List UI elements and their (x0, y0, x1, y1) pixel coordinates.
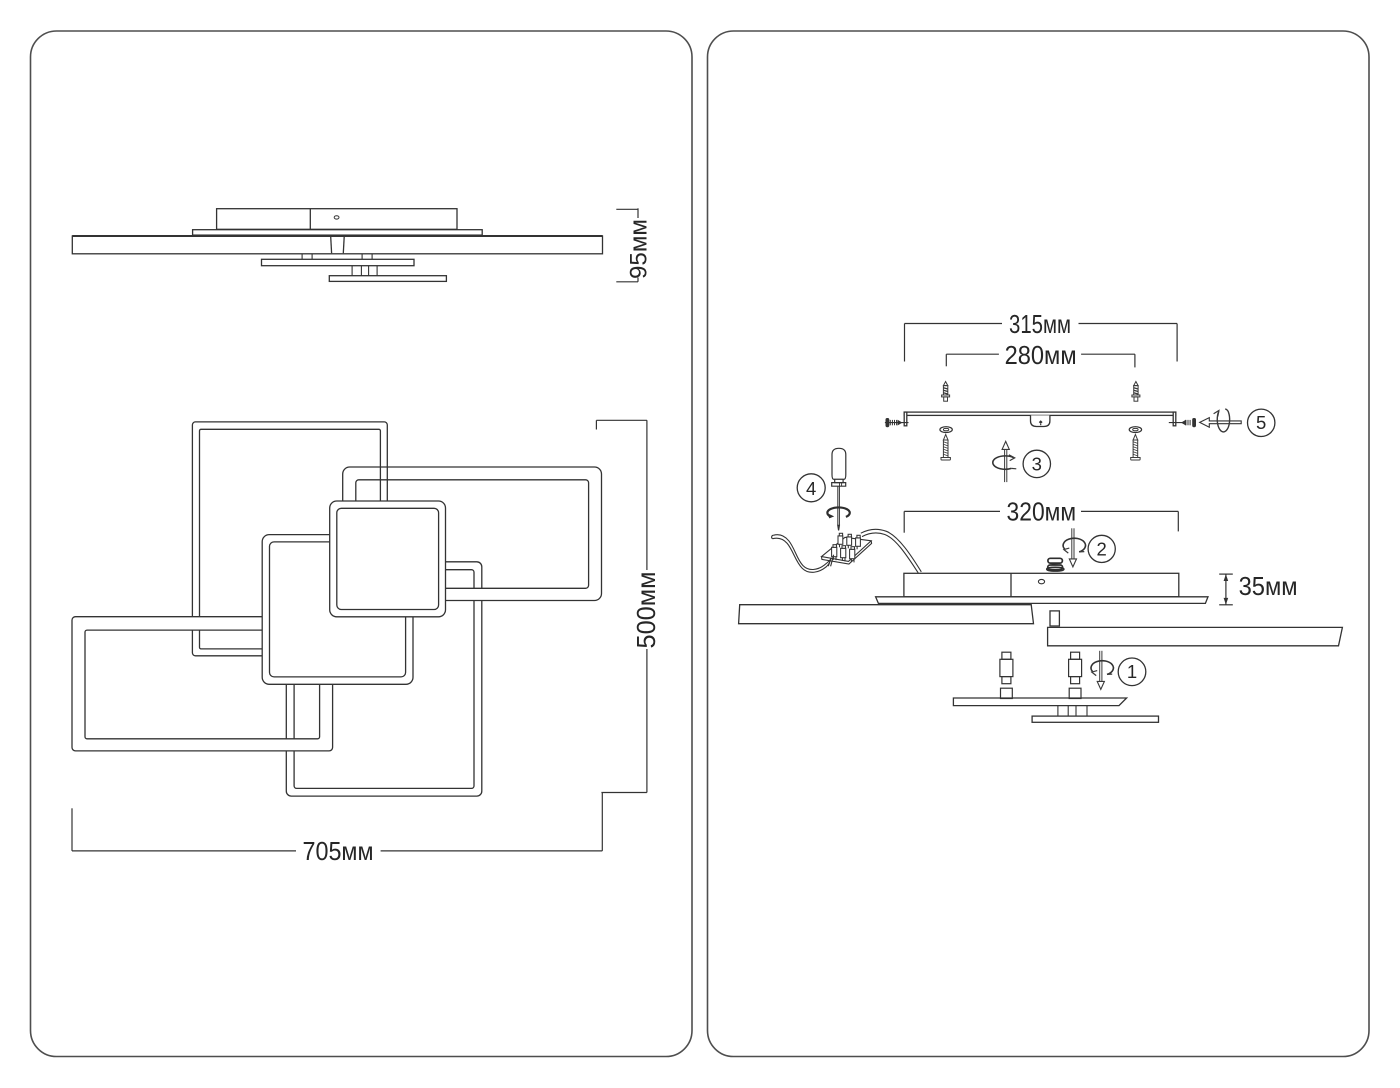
svg-text:1: 1 (1127, 661, 1137, 682)
svg-text:95мм: 95мм (626, 219, 653, 279)
svg-text:4: 4 (806, 478, 816, 499)
svg-text:705мм: 705мм (303, 836, 374, 866)
svg-text:500мм: 500мм (631, 572, 661, 649)
svg-text:320мм: 320мм (1007, 497, 1077, 527)
svg-text:315мм: 315мм (1009, 309, 1071, 339)
svg-text:5: 5 (1256, 412, 1266, 433)
svg-text:35мм: 35мм (1239, 571, 1298, 601)
svg-text:3: 3 (1032, 453, 1042, 474)
svg-text:280мм: 280мм (1005, 340, 1077, 370)
svg-text:2: 2 (1097, 538, 1107, 559)
